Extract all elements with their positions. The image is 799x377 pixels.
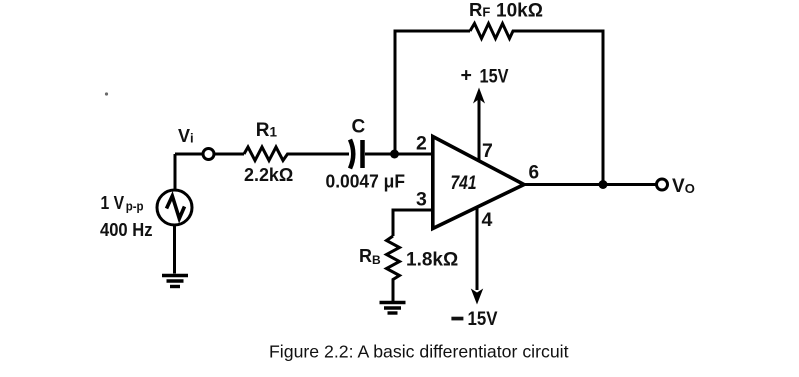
svg-text:+: +: [461, 65, 472, 87]
svg-text:15V: 15V: [468, 308, 498, 330]
svg-text:1.8kΩ: 1.8kΩ: [406, 250, 458, 271]
svg-text:400 Hz: 400 Hz: [100, 219, 153, 240]
svg-text:2.2kΩ: 2.2kΩ: [244, 164, 293, 185]
svg-text:p-p: p-p: [126, 198, 144, 213]
svg-text:0.0047 μF: 0.0047 μF: [326, 172, 406, 192]
svg-text:741: 741: [451, 173, 477, 194]
svg-text:Figure 2.2: A basic differenti: Figure 2.2: A basic differentiator circu…: [269, 342, 569, 362]
svg-text:7: 7: [482, 140, 493, 162]
svg-text:4: 4: [482, 209, 493, 231]
svg-text:15V: 15V: [480, 66, 509, 88]
svg-text:2: 2: [416, 133, 427, 155]
svg-text:6: 6: [529, 162, 540, 183]
svg-text:C: C: [352, 117, 366, 138]
svg-text:1 V: 1 V: [101, 192, 125, 213]
svg-text:10kΩ: 10kΩ: [496, 1, 543, 22]
svg-text:3: 3: [416, 189, 427, 211]
